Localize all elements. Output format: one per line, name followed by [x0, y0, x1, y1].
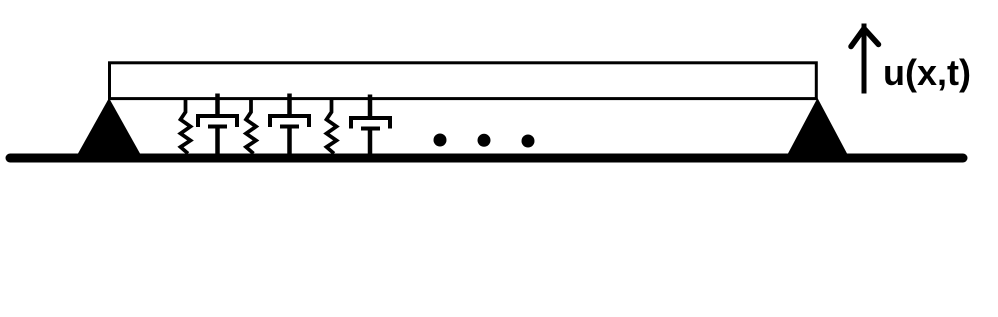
spring K2 — [246, 98, 256, 154]
damper C2 — [270, 94, 309, 156]
spring K1 — [181, 98, 191, 154]
damper C3 — [351, 95, 390, 156]
beam (simply supported beam outline) — [110, 63, 817, 99]
ground line — [10, 154, 963, 163]
spring K3 — [327, 98, 337, 154]
displacement arrow u(x,t) — [851, 24, 879, 94]
ellipsis dot 2 — [478, 134, 491, 147]
svg-text:u(x,t): u(x,t) — [883, 52, 971, 93]
damper C1 — [198, 94, 237, 156]
right pin support — [788, 98, 847, 154]
ellipsis dot 1 — [434, 134, 447, 147]
ellipsis dot 3 — [522, 135, 535, 148]
left pin support — [78, 98, 140, 154]
